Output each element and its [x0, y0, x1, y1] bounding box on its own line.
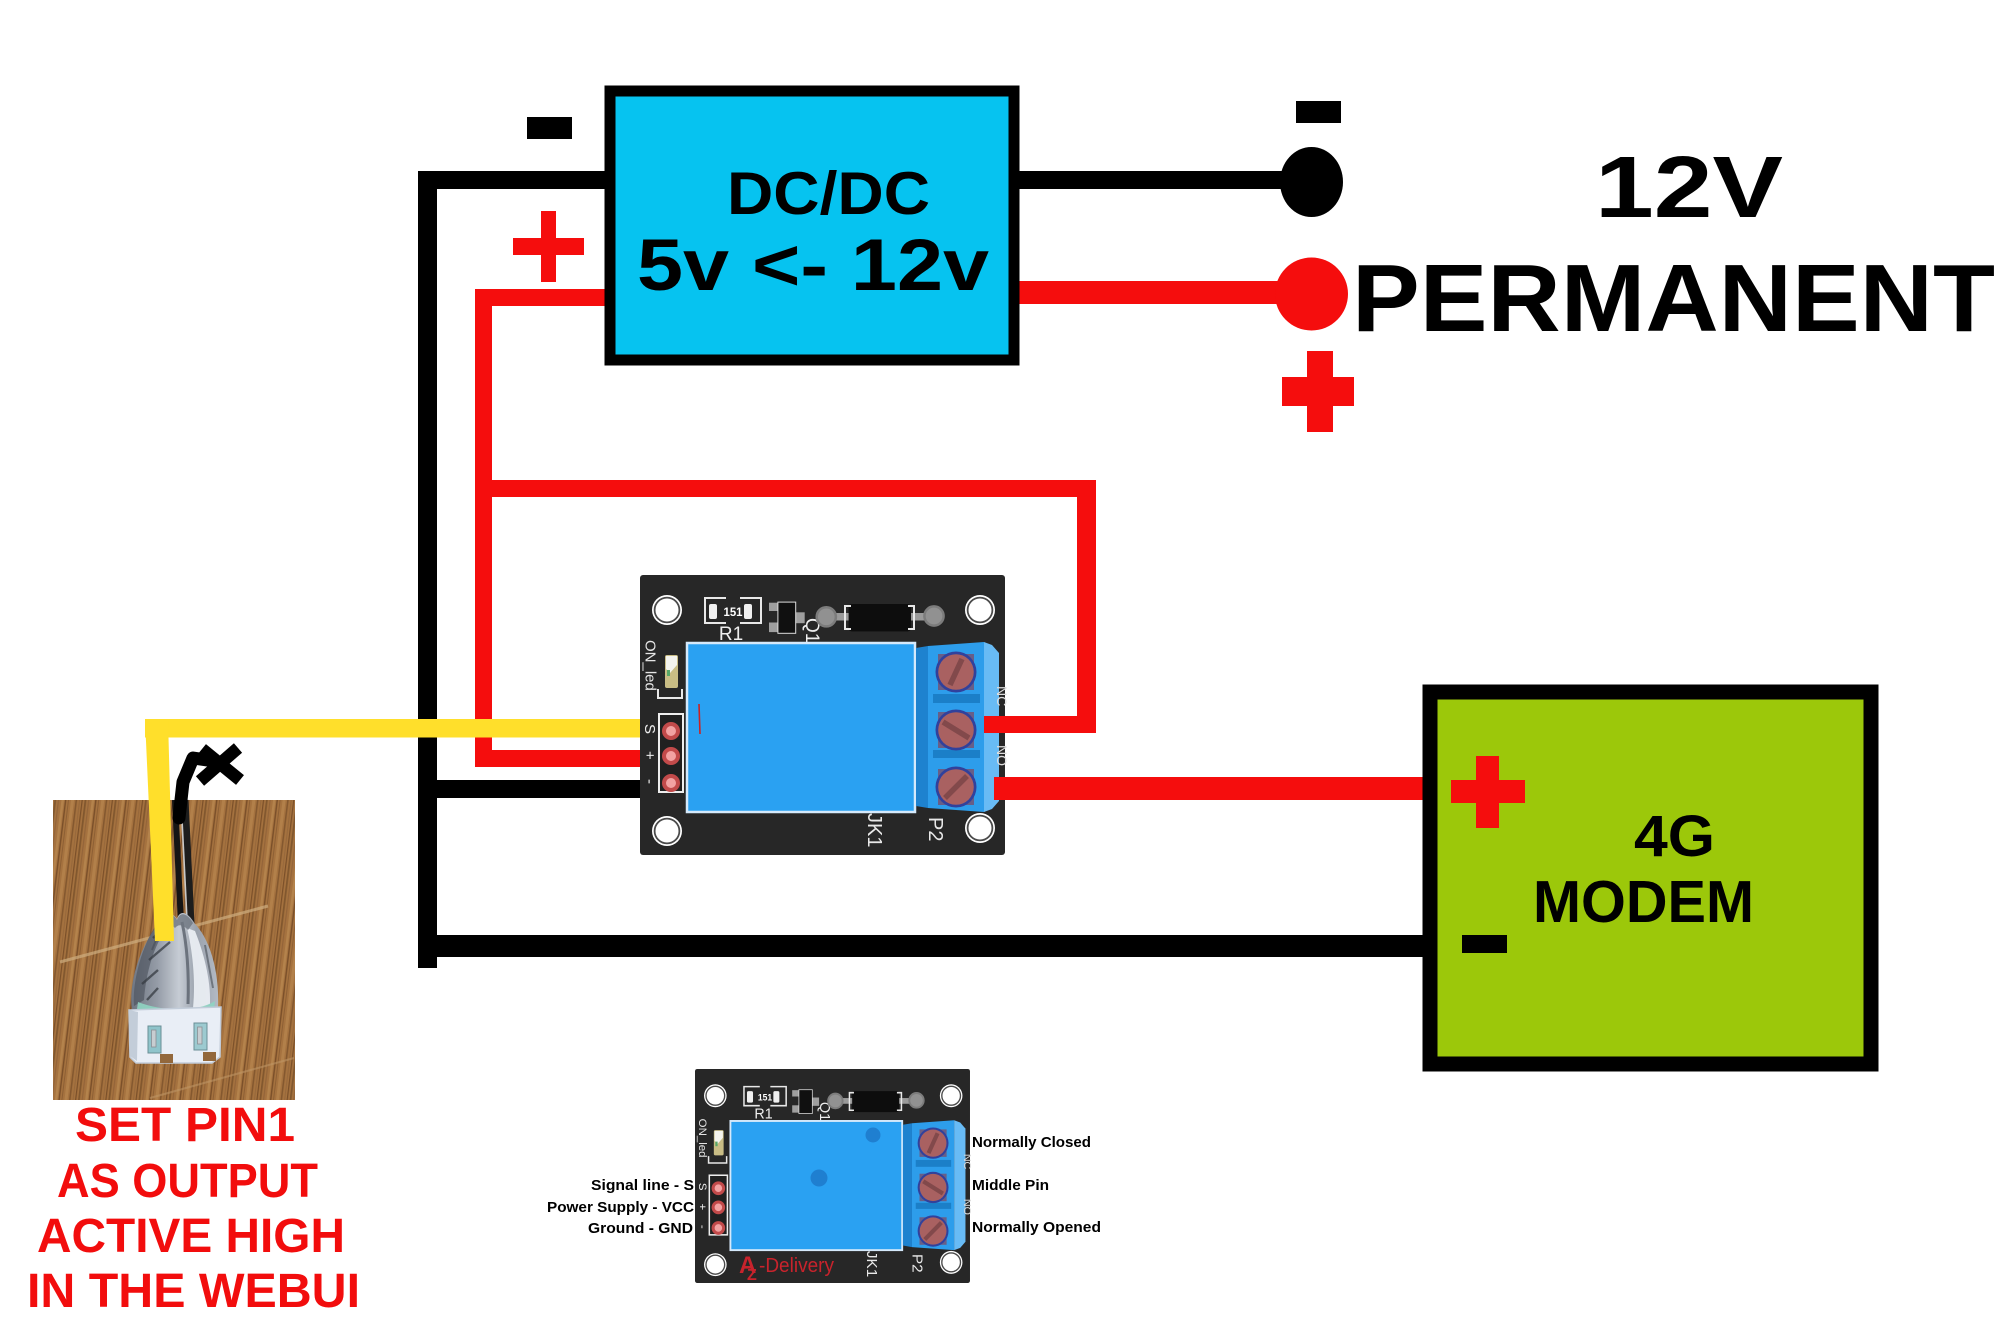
minus symbol above negative terminal [1296, 101, 1341, 123]
svg-text:Z: Z [747, 1267, 757, 1284]
photo of soldered JST connector [53, 800, 295, 1100]
wire red: DC/DC plus input horizontal [475, 289, 610, 306]
photo black wires [175, 800, 181, 924]
svg-text:Normally Opened: Normally Opened [972, 1219, 1101, 1236]
12V positive terminal dot [1275, 258, 1348, 331]
plus symbol inside modem [1451, 780, 1525, 803]
relay module JK1 (main) [640, 575, 1010, 855]
wire red: 12V branch to relay NC loop [475, 480, 1096, 497]
svg-text:MODEM: MODEM [1533, 869, 1754, 935]
wire black: branch to relay minus pin [418, 780, 665, 798]
connector slot 2 [194, 1023, 207, 1050]
wire black: bottom ground run to modem [418, 935, 1428, 957]
connector body [129, 1007, 221, 1063]
wire black: cut wire from connector [179, 758, 207, 818]
svg-text:ACTIVE HIGH: ACTIVE HIGH [37, 1210, 345, 1263]
svg-text:DC/DC: DC/DC [727, 160, 930, 227]
svg-text:Signal line - S: Signal line - S [591, 1177, 694, 1194]
svg-text:AS OUTPUT: AS OUTPUT [57, 1155, 318, 1208]
wire red: middle terminal to vertical [984, 716, 1096, 733]
4G modem box [1430, 692, 1871, 1064]
DC/DC converter box [610, 91, 1014, 360]
minus symbol at DC/DC input [527, 117, 572, 139]
svg-text:Middle Pin: Middle Pin [972, 1177, 1049, 1194]
X cut mark on signal wire [200, 748, 240, 781]
svg-text:Ground - GND: Ground - GND [588, 1220, 693, 1237]
plus symbol below positive terminal [1282, 377, 1354, 406]
svg-text:-Delivery: -Delivery [759, 1255, 834, 1277]
svg-text:Power Supply - VCC: Power Supply - VCC [547, 1199, 694, 1216]
svg-text:4G: 4G [1634, 804, 1715, 869]
wood scratch highlight [60, 906, 268, 962]
minus symbol inside modem [1462, 935, 1507, 953]
connector feet notches [160, 1054, 173, 1063]
relay body red seam line [699, 704, 700, 734]
12V negative terminal dot [1280, 147, 1343, 217]
relay body rivet dots [866, 1128, 881, 1143]
wire red: vertical down to middle terminal [1077, 480, 1096, 733]
wire red: relay NO to modem plus [994, 777, 1428, 800]
solder blob [131, 913, 218, 1014]
svg-text:IN THE WEBUI: IN THE WEBUI [27, 1265, 360, 1318]
wire black: DC/DC minus input horizontal [418, 171, 610, 189]
wire yellow: signal drop into photo connector [145, 719, 174, 941]
AZ-Delivery logo [739, 1252, 834, 1284]
wire red: 5V vertical feed [475, 289, 492, 767]
svg-text:Normally Closed: Normally Closed [972, 1134, 1091, 1151]
svg-text:5v <- 12v: 5v <- 12v [637, 225, 989, 306]
svg-text:SET PIN1: SET PIN1 [75, 1099, 295, 1152]
wire red: DC/DC to 12V positive terminal [1014, 281, 1280, 304]
connector slot 1 [148, 1026, 161, 1053]
wire black: main ground vertical [418, 171, 437, 968]
svg-text:PERMANENT: PERMANENT [1352, 245, 1995, 352]
wire black: DC/DC to 12V negative terminal [1014, 171, 1285, 189]
svg-text:12V: 12V [1595, 139, 1783, 236]
plus symbol at DC/DC input [513, 238, 584, 255]
wire yellow: signal horizontal to relay S pin [145, 719, 665, 738]
wire red: elbow to relay plus pin [475, 750, 665, 767]
relay module P2 (pinout legend) [695, 1069, 973, 1283]
